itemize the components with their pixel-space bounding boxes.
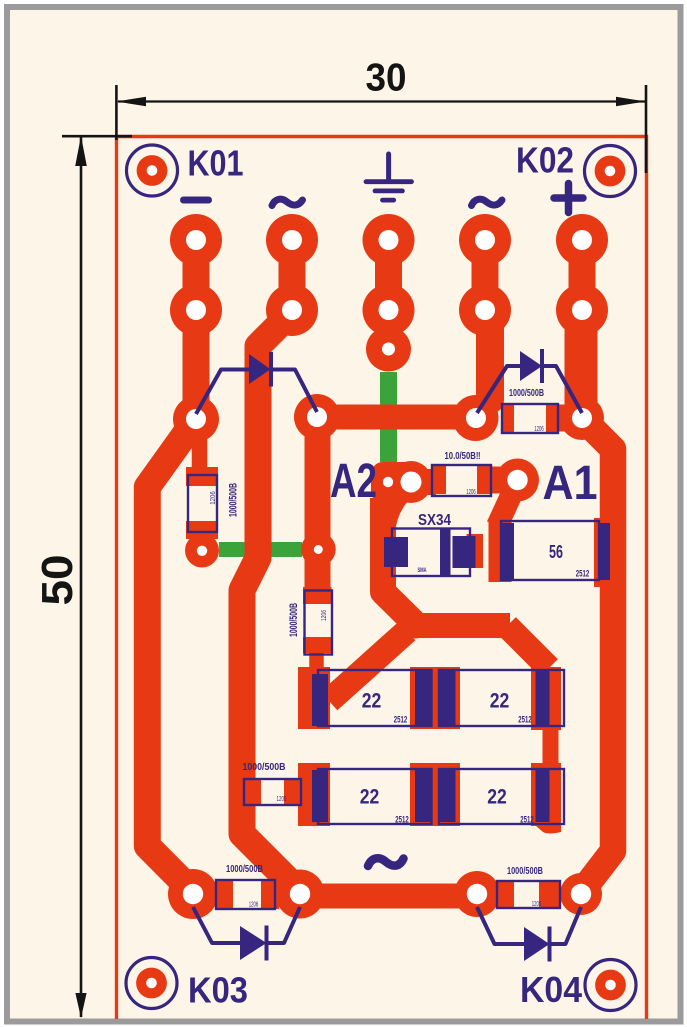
wire left rail [147,419,196,892]
resistor R4 outline [305,591,333,655]
wire col4 down [476,312,504,400]
A2 pad [390,461,432,503]
hole node A [186,409,206,429]
wire stub to R3 [192,424,208,470]
arrowhead left of 30 dim [117,97,147,107]
wire col1 down to node A [183,310,210,419]
row2 22 resistors pads [298,763,330,826]
row1 terminal left [312,674,328,726]
symbol tilde col4 [472,199,503,205]
OUTLINES [188,404,599,909]
svg-text:22: 22 [487,785,507,809]
resistor R11 22 outline [439,670,564,726]
TERMINAL BARS [312,523,610,822]
pad gnd row2 [363,284,415,336]
wire col4 pads link [472,240,499,310]
wire pad317 down to via [305,417,331,588]
resistor R4 pads (vertical 1206) [303,587,332,604]
svg-text:22: 22 [360,785,380,809]
svg-text:1206: 1206 [277,796,287,803]
svg-text:1000/500B: 1000/500B [288,603,300,637]
pad gnd row1 [363,214,415,266]
hole pad below R3 [197,546,207,556]
row1 terminal mid1 [415,671,432,726]
dimension line 50 [80,136,83,1017]
wire col5 down [565,310,598,410]
arrowhead bottom of 50 dim [75,993,86,1018]
dimension line 30 [118,100,645,102]
D5 SX34 terminal right [453,536,476,568]
hole col1 row2 [186,300,206,320]
svg-text:2512: 2512 [518,715,532,726]
svg-text:1206: 1206 [249,902,259,909]
row2 right pad lower lobe [536,826,561,834]
board outline [117,137,647,1020]
resistor R9 pads (bottom right 1206) [497,881,514,908]
svg-text:1000/500B: 1000/500B [228,483,240,517]
R7 56 terminal left [501,523,514,580]
resistor R9 outline [497,881,560,908]
via near A2 [374,468,402,496]
svg-text:K04: K04 [520,969,583,1010]
A2 cluster fillet [375,486,428,533]
wire ground stub [377,310,401,349]
resistor R5 outline [502,404,558,433]
resistor R5 pads (horizontal 1206 top right) [502,405,514,432]
node D pad (582,418) [560,396,604,440]
bottom pad K03 net [168,869,218,919]
wire R5 right link to col5 pad [555,405,580,432]
resistor R7 56 pads [489,522,512,582]
svg-text:1000/500B: 1000/500B [507,866,543,877]
resistor R6 pads (10.0/50B) [432,466,446,494]
dimension extension line right (30 dim) [645,85,648,173]
row2 terminal left [312,770,328,822]
hole via A2 [383,477,393,487]
pad gnd small [366,327,411,372]
resistor R7 56 outline [501,521,599,580]
mounting hole K03 [126,958,177,1009]
pad col4 row2 [459,284,511,336]
row2 terminal right [536,770,550,822]
symbol minus [180,197,212,204]
resistor R12 22 outline [318,769,432,824]
pad col2 row2 [266,284,318,336]
svg-text:22: 22 [362,689,382,713]
svg-text:K02: K02 [516,140,574,181]
hole col5 row2 [572,300,592,320]
hole via green [314,545,323,554]
A2 cluster blob [371,462,416,503]
pad col5 row2 [556,284,608,336]
svg-text:2512: 2512 [395,815,409,826]
row1 terminal right [536,671,550,726]
wire band to row1 left pad [329,631,407,701]
wire band to row1 right pad [507,626,549,668]
wire row2 right down to pad [543,815,559,824]
hole col1 row1 [186,230,206,250]
pad col4 row1 [459,214,511,266]
pad col1 row2 [170,284,222,336]
wire A2 arm down [383,498,417,626]
svg-text:30: 30 [366,57,407,100]
diode D4 symbol [477,907,581,962]
svg-text:1206: 1206 [534,426,544,433]
hole node B [307,407,327,427]
svg-text:22: 22 [490,689,510,713]
hole gnd row1 [379,230,399,250]
wire bottom horizontal [300,884,477,909]
resistor R6 outline [432,465,491,496]
arrowhead top of 50 dim [75,136,87,166]
resistor R3 pads (vertical 1206) [186,467,218,486]
wire R4 to row1 left pad [309,652,324,672]
wire S band [415,613,510,638]
green trace horizontal [219,542,302,557]
node C pad (476,418) [453,395,499,441]
dimension extension line top (50 dim) [62,135,132,138]
wire A2 pad to R6 [412,469,436,495]
wire ground column pads link [375,240,402,310]
svg-text:2512: 2512 [520,815,534,826]
svg-text:SMA: SMA [418,567,427,574]
svg-text:1000/500B: 1000/500B [243,762,286,773]
wire right rail [582,418,613,890]
wire col2 pads link [279,240,306,310]
pad K01 col row1 [170,214,222,266]
hole bottom 2 [290,884,310,904]
row1 22 resistors pads [298,667,330,729]
hole col4 row2 [475,300,495,320]
diode D1 symbol [196,352,317,414]
hole node D [572,408,592,428]
green trace gnd vertical [380,372,397,462]
bottom pad 3 [454,871,500,917]
svg-text:10.0/50B‼: 10.0/50B‼ [445,451,481,462]
mounting hole K04 [585,960,636,1011]
A1 pad [496,459,539,502]
pad below R3 [185,534,219,568]
row1 terminal mid2 [439,671,456,726]
pad col2 row1 [266,214,318,266]
diode D5 SX34 outline [392,529,470,577]
svg-text:2512: 2512 [394,715,408,726]
resistor R13 22 outline [439,769,564,824]
svg-text:56: 56 [549,542,563,562]
hole A1 [507,470,527,490]
dimension extension line left (30 dim) [115,85,118,140]
symbol plus [554,184,583,213]
svg-text:1206: 1206 [321,610,328,621]
R7 56 terminal right [598,523,610,580]
hole col2 row2 [282,300,302,320]
wire A1 pad to R7 [497,487,515,526]
hole col2 row1 [282,230,302,250]
svg-text:A1: A1 [543,457,598,510]
svg-text:SX34: SX34 [418,512,451,529]
wire mid horizontal [317,405,476,430]
svg-text:1206: 1206 [210,491,217,505]
hole gnd small [382,343,395,356]
hole col5 row1 [572,230,592,250]
resistor R14 outline [244,779,301,805]
row2 terminal mid1 [415,770,432,822]
symbol tilde col2 [272,199,303,205]
bottom pad 2 [276,870,325,919]
pad col5 row1 [556,214,608,266]
svg-text:K01: K01 [188,143,244,184]
row2 terminal mid2 [439,770,456,822]
mounting hole K02 [585,146,636,197]
svg-text:1206: 1206 [532,901,542,908]
diode D5 SX34 pads [377,534,392,569]
wire col5 pads link [569,240,596,310]
D5 SX34 center band [440,529,451,576]
hole bottom 1 [183,884,203,904]
resistor R10 22 outline [318,670,432,726]
svg-text:50: 50 [33,555,82,606]
svg-text:2512: 2512 [576,569,590,580]
via right of green [301,532,336,567]
resistor R8 outline [216,880,275,909]
svg-text:K03: K03 [188,970,248,1011]
svg-text:A2: A2 [330,455,377,508]
wire row1-row2 right connector [543,718,559,772]
arrowhead right of 30 dim [616,97,646,107]
svg-text:1000/500B: 1000/500B [509,388,544,399]
hole gnd row2 [379,300,399,320]
hole bottom 3 [467,884,487,904]
wire col2 long rail down [242,312,299,891]
hole A2 [401,472,422,493]
hole node C [466,408,486,428]
svg-text:1000/500B: 1000/500B [226,864,263,875]
symbol tilde bottom [368,858,404,866]
mounting hole K01 [127,145,178,196]
hole bottom 4 [571,884,591,904]
diode D2 symbol [477,349,582,413]
symbol ground [366,154,412,200]
node B pad (317,417) [294,394,340,440]
hole col4 row1 [475,230,495,250]
wire K01 column pads link [183,240,210,310]
D5 SX34 terminal left [384,537,408,567]
resistor R14 pads (mid left 1206) [245,780,261,805]
bottom pad K04 net [560,873,602,915]
HOLES [183,230,592,904]
resistor R8 pads (bottom left 1206) [216,880,233,909]
junction filler [403,613,429,639]
node A pad (196,419) [173,396,219,442]
resistor R3 outline [188,475,217,532]
diode D3 symbol [193,907,300,961]
wire R6 to A1 pad [489,467,518,494]
svg-text:1206: 1206 [466,489,476,496]
